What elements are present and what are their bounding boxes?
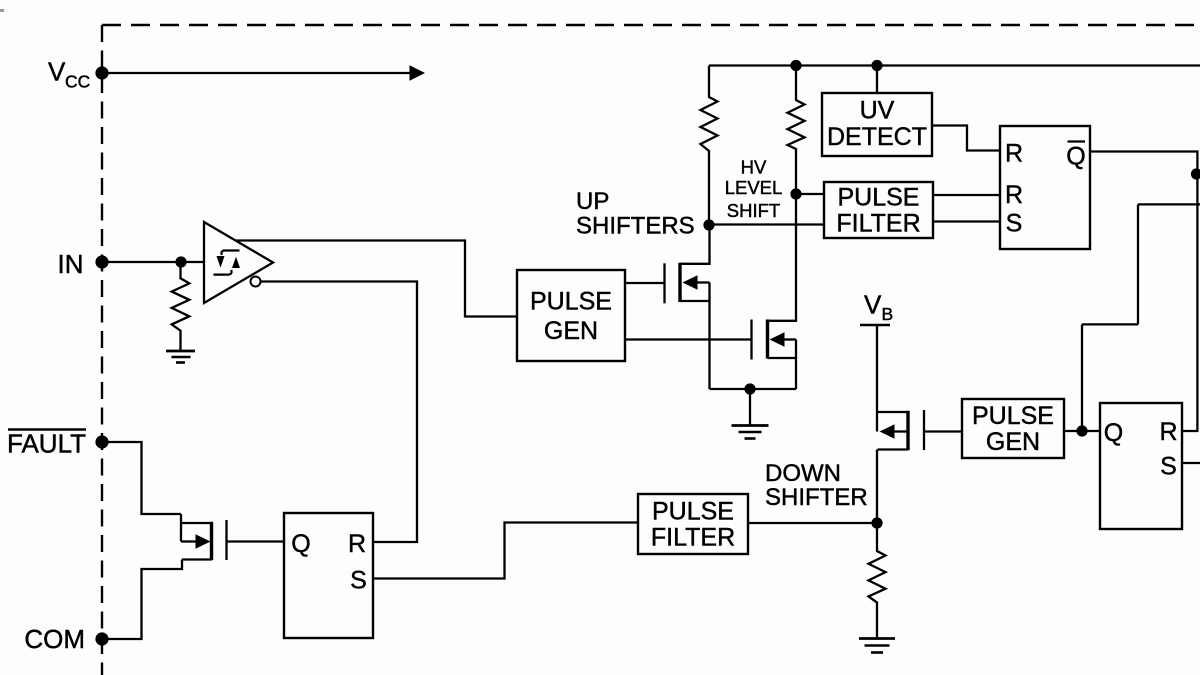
svg-text:FILTER: FILTER: [651, 524, 735, 552]
svg-text:UV: UV: [860, 97, 895, 125]
buffer inverting output bubble: [251, 277, 261, 287]
wire pulse filter out S: [933, 220, 1000, 222]
svg-text:HV: HV: [741, 157, 767, 178]
latch U2 (high side RS latch): [1000, 126, 1090, 249]
ground (input resistor): [166, 351, 195, 363]
node right edge: [1191, 168, 1200, 179]
svg-text:SHIFTERS: SHIFTERS: [576, 213, 695, 240]
block PULSE GEN upper: [517, 270, 625, 361]
svg-text:B: B: [882, 304, 894, 324]
wire Vcc arrow: [102, 65, 425, 80]
resistor R2 (up shifter 2 load): [788, 66, 805, 195]
svg-text:PULSE: PULSE: [530, 288, 612, 316]
pin FAULT node: [95, 435, 108, 448]
block PULSE GEN lower: [962, 399, 1064, 458]
pin COM node: [95, 632, 108, 645]
transistor M4 fault open drain: [102, 514, 284, 639]
svg-text:S: S: [1160, 453, 1177, 481]
block PULSE FILTER lower: [638, 494, 748, 554]
node bus R2: [790, 60, 801, 71]
block PULSE FILTER upper: [824, 182, 933, 238]
ground (down shifter resistor): [859, 639, 895, 653]
wire internal Vcc bus: [709, 64, 1200, 66]
svg-text:SHIFTER: SHIFTER: [765, 484, 868, 511]
svg-text:V: V: [48, 57, 66, 87]
node HV level shift junction: [790, 188, 801, 199]
schmitt input buffer U1: [204, 222, 273, 303]
node common source: [744, 383, 755, 394]
ground (up shifters): [732, 426, 769, 439]
wire Qbar output: [1090, 150, 1199, 152]
node input junction: [175, 256, 186, 267]
svg-text:LEVEL: LEVEL: [725, 177, 783, 198]
wire IN to buffer: [102, 261, 204, 263]
svg-text:FILTER: FILTER: [836, 210, 920, 238]
svg-text:PULSE: PULSE: [838, 184, 920, 212]
svg-text:PULSE: PULSE: [972, 402, 1054, 430]
label UP SHIFTERS: [576, 188, 695, 240]
svg-text:DOWN: DOWN: [765, 460, 841, 487]
wire branch right cropped: [1197, 173, 1200, 175]
svg-text:SHIFT: SHIFT: [727, 200, 780, 221]
scan speck top-left: [0, 9, 4, 12]
svg-text:R: R: [348, 530, 366, 558]
wire feedback jog: [1082, 204, 1200, 431]
IC boundary dashed border left: [101, 25, 103, 675]
svg-text:GEN: GEN: [986, 428, 1040, 456]
pin VCC node: [95, 66, 108, 79]
node bus UV: [871, 60, 882, 71]
wire pulse gen lower out: [1064, 430, 1100, 432]
transistor M1 up shifter: [665, 225, 710, 389]
block UV DETECT: [822, 93, 932, 156]
svg-text:CC: CC: [65, 72, 90, 92]
svg-text:PULSE: PULSE: [652, 498, 734, 526]
wire buffer true output to pulse gen: [236, 241, 517, 317]
wire right edge vertical: [1196, 152, 1198, 432]
svg-text:Q: Q: [291, 530, 310, 558]
svg-text:Q: Q: [1104, 419, 1123, 447]
svg-text:FAULT: FAULT: [7, 429, 86, 459]
pin VCC label: [48, 57, 90, 92]
pin VB label: [860, 290, 893, 326]
transistor M3 down shifter: [877, 410, 962, 523]
svg-text:V: V: [864, 290, 882, 320]
wire pulse gen out1 to up-shifter M1 gate: [625, 282, 664, 284]
wire latch U3 S: [1182, 462, 1200, 464]
node pulse gen out: [1076, 425, 1087, 436]
label HV LEVEL SHIFT: [725, 157, 783, 222]
wire buffer inverted output to fault latch R: [261, 282, 418, 543]
svg-text:S: S: [1006, 210, 1023, 238]
resistor R-IN input pulldown: [172, 262, 190, 351]
svg-text:IN: IN: [58, 249, 84, 279]
label DOWN SHIFTER: [765, 460, 868, 511]
svg-text:S: S: [350, 567, 367, 595]
svg-text:R: R: [1159, 418, 1177, 446]
pin IN node: [95, 255, 108, 268]
node up shifters junction: [703, 219, 714, 230]
wire FAULT to M4 drain: [102, 442, 181, 514]
svg-text:GEN: GEN: [544, 317, 598, 345]
svg-text:DETECT: DETECT: [827, 123, 927, 151]
latch U3 (lower right RS latch): [1100, 403, 1182, 529]
wire pulse gen out2 to up-shifter M2 gate: [625, 338, 751, 340]
wire latch U3 R: [1182, 430, 1199, 432]
svg-text:Q: Q: [1066, 143, 1085, 171]
resistor R3 (down shifter load): [869, 523, 886, 639]
node down shifter source: [871, 517, 882, 528]
wire VB to down shifter: [876, 325, 878, 432]
wire bus to UV detect: [876, 66, 878, 94]
wire up shifters node to pulse filter: [709, 223, 824, 225]
transistor M2 up shifter: [752, 194, 797, 389]
wire UV detect to latch R: [932, 126, 1000, 151]
latch U4 (fault latch): [284, 513, 373, 638]
svg-text:R: R: [1005, 140, 1023, 168]
wire up shifters common source: [710, 388, 797, 390]
wire to ground: [749, 389, 751, 426]
pin FAULT label with overline: [7, 429, 86, 459]
svg-text:COM: COM: [24, 624, 85, 654]
wire pulse filter lower out: [748, 522, 877, 524]
svg-text:UP: UP: [576, 188, 609, 215]
wire HV node to pulse filter: [796, 193, 824, 195]
svg-text:R: R: [1005, 181, 1023, 209]
wire pulse filter out R: [933, 194, 1000, 196]
wire latch U4 S to pulse filter lower: [373, 523, 638, 579]
resistor R1 (up shifter 1 load): [701, 66, 718, 226]
IC boundary dashed border top: [102, 24, 1200, 26]
